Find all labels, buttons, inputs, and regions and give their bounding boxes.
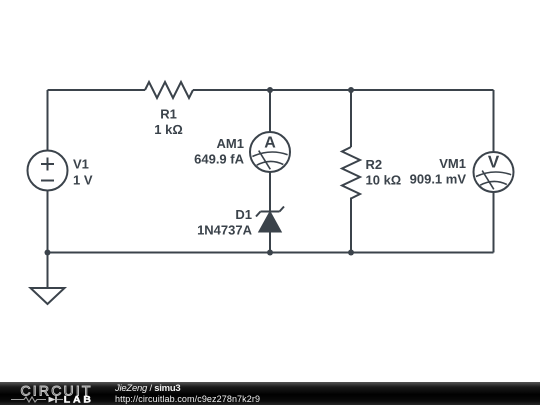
wire top-right horizontal	[193, 89, 494, 91]
wire left vertical upper	[47, 90, 49, 151]
voltmeter VM1	[474, 152, 514, 192]
svg-text:1 kΩ: 1 kΩ	[154, 122, 183, 137]
diode D1 triangle	[260, 213, 281, 232]
ammeter AM1	[250, 132, 290, 172]
wire ground stem	[47, 253, 49, 289]
svg-text:R1: R1	[160, 107, 177, 122]
AM1 gauge small arc	[257, 161, 284, 165]
VM1 gauge big arc	[476, 172, 511, 177]
wire ammeter to diode	[269, 172, 271, 212]
svg-text:AM1: AM1	[217, 136, 244, 151]
svg-text:R2: R2	[366, 157, 383, 172]
voltage source V1	[28, 151, 68, 191]
resistor R1	[145, 82, 193, 98]
V1 minus sign	[41, 180, 54, 182]
node junction bottom-left	[45, 250, 51, 256]
wire left vertical lower	[47, 191, 49, 253]
AM1 gauge big arc	[252, 152, 287, 157]
wire ammeter branch upper	[269, 90, 271, 132]
AM1 needle	[259, 151, 271, 170]
svg-text:1 V: 1 V	[73, 173, 93, 188]
wire top-left horizontal	[48, 89, 146, 91]
resistor R2	[342, 147, 360, 199]
node junction top-R2	[348, 87, 354, 93]
svg-text:A: A	[264, 134, 276, 151]
svg-text:VM1: VM1	[439, 156, 466, 171]
VM1 gauge small arc	[480, 181, 507, 185]
wire right vertical upper	[493, 90, 495, 152]
CircuitLab logo resistor squiggle	[11, 397, 46, 402]
wire right vertical lower	[493, 192, 495, 253]
node junction bottom-middle	[267, 250, 273, 256]
ground	[31, 288, 65, 304]
footer credit text	[115, 383, 260, 405]
wire R2 branch lower	[350, 198, 352, 253]
CircuitLab logo diode	[49, 397, 56, 403]
wire diode to bottom	[269, 232, 271, 253]
svg-text:V: V	[488, 153, 500, 172]
svg-text:1N4737A: 1N4737A	[197, 223, 253, 238]
wire R2 branch upper	[350, 90, 352, 147]
svg-text:LAB: LAB	[64, 395, 94, 405]
wire bottom horizontal	[48, 252, 494, 254]
svg-text:649.9 fA: 649.9 fA	[194, 152, 244, 167]
V1 plus sign	[41, 158, 54, 171]
svg-text:909.1 mV: 909.1 mV	[410, 171, 467, 186]
svg-text:V1: V1	[73, 157, 89, 172]
svg-text:10 kΩ: 10 kΩ	[366, 173, 402, 188]
diode D1 cathode bar	[256, 207, 284, 217]
svg-text:D1: D1	[235, 207, 252, 222]
node junction bottom-R2	[348, 250, 354, 256]
footer bar	[0, 382, 540, 405]
VM1 needle	[482, 171, 494, 190]
node junction top-middle	[267, 87, 273, 93]
